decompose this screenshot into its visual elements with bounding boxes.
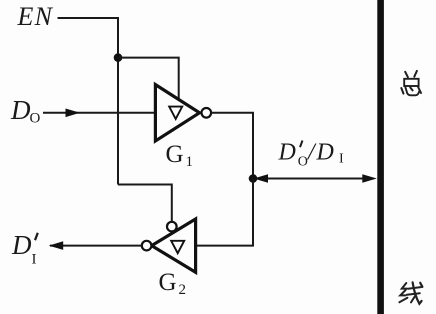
svg-text:G: G xyxy=(166,141,184,168)
wire G1 output to node xyxy=(211,113,253,179)
bus label xian (Chinese) xyxy=(399,282,422,304)
svg-text:G: G xyxy=(159,269,177,296)
bus line xyxy=(377,0,384,314)
G2 output bubble xyxy=(142,241,152,251)
node bus side junction xyxy=(249,174,258,183)
svg-text:O: O xyxy=(30,111,41,127)
wire DI output xyxy=(50,245,142,247)
wire DO input xyxy=(43,112,155,114)
G1 output bubble xyxy=(202,108,212,118)
input label DO xyxy=(10,95,41,127)
G1 tri-state marker xyxy=(169,107,182,119)
wire G1 enable xyxy=(118,58,179,101)
bus label zong (Chinese) xyxy=(401,71,421,95)
svg-text:D: D xyxy=(316,139,334,165)
svg-text:EN: EN xyxy=(17,2,54,31)
net label DO'/DI xyxy=(278,139,345,169)
label G2 xyxy=(159,269,187,298)
wire node to G2 input xyxy=(196,179,253,246)
svg-text:D: D xyxy=(11,230,32,260)
wire EN horizontal xyxy=(58,17,119,19)
arrowhead right toward bus xyxy=(362,174,377,183)
arrowhead DI output xyxy=(49,241,64,250)
tri-state buffer G1 triangle xyxy=(155,85,199,141)
svg-text:D: D xyxy=(10,95,31,125)
label G1 xyxy=(166,141,194,170)
G2 enable bubble xyxy=(167,222,177,232)
output label DI' xyxy=(11,230,38,268)
arrowhead DO input xyxy=(66,109,81,118)
svg-text:I: I xyxy=(32,251,37,267)
svg-text:D: D xyxy=(278,139,296,165)
svg-text:I: I xyxy=(339,151,344,166)
svg-text:2: 2 xyxy=(179,282,187,298)
node EN junction xyxy=(114,53,123,62)
svg-text:O: O xyxy=(298,154,308,169)
tri-state buffer G2 triangle xyxy=(152,219,196,272)
svg-text:1: 1 xyxy=(186,154,194,170)
wire EN vertical xyxy=(117,17,119,185)
bidirectional arrow wire to bus xyxy=(256,178,374,180)
wire G2 enable xyxy=(118,185,172,222)
G2 tri-state marker xyxy=(171,241,184,253)
arrowhead left toward node xyxy=(254,174,269,183)
